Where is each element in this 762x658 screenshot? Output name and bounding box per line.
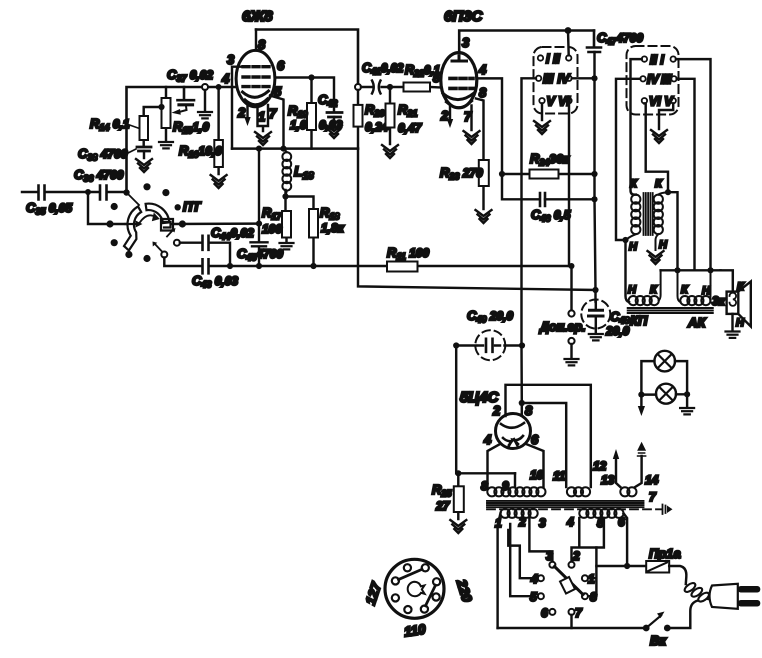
switch contact dots bbox=[143, 183, 150, 190]
svg-text:6: 6 bbox=[541, 606, 548, 620]
switch Вк bbox=[643, 625, 650, 632]
svg-text:4: 4 bbox=[483, 432, 492, 447]
wiper arrow into R15 bbox=[178, 106, 187, 112]
disc link bar 1 bbox=[399, 569, 423, 579]
speaker cone bbox=[738, 282, 751, 327]
svg-text:III: III bbox=[543, 72, 554, 86]
ground R23 bbox=[476, 210, 492, 223]
svg-text:C454700: C454700 bbox=[237, 246, 283, 263]
grid dashes V2 bbox=[450, 78, 473, 88]
wire fuse to cord bbox=[669, 566, 686, 584]
tube V2 6П3С envelope bbox=[441, 53, 477, 108]
wire grid riser bbox=[127, 87, 237, 193]
wire R25 line to tap9 bbox=[514, 473, 516, 486]
svg-text:C36 4700: C36 4700 bbox=[74, 167, 124, 184]
voltage disc bbox=[385, 559, 444, 618]
arrow winding14 up marker bbox=[635, 456, 642, 487]
svg-text:5: 5 bbox=[530, 590, 537, 604]
svg-text:6: 6 bbox=[618, 515, 625, 529]
capacitor C48 plates bbox=[589, 310, 604, 316]
node C45 wiper bbox=[256, 221, 262, 227]
power transformer winding 8-9-10 bbox=[487, 487, 545, 496]
box1 wire V ground bbox=[541, 103, 543, 120]
output transformer primary right winding bbox=[654, 192, 668, 250]
lamp wire left bbox=[641, 361, 656, 395]
selector wiper bar bbox=[555, 567, 584, 595]
svg-text:Н: Н bbox=[659, 239, 668, 251]
svg-text:6: 6 bbox=[531, 432, 539, 447]
box1 contact V bbox=[539, 98, 544, 103]
cord twist bbox=[683, 581, 712, 603]
wire contact2 riser bbox=[572, 518, 597, 596]
svg-text:4: 4 bbox=[566, 515, 574, 529]
lower core lines bbox=[628, 308, 713, 313]
svg-text:3: 3 bbox=[462, 35, 470, 50]
svg-text:1: 1 bbox=[258, 109, 265, 124]
node C44 bus bbox=[227, 263, 233, 269]
svg-text:Пр1а: Пр1а bbox=[649, 546, 681, 561]
wire filament right bbox=[526, 444, 544, 487]
capacitor C49 wire bbox=[456, 344, 522, 346]
node C47/R24 bbox=[591, 171, 597, 177]
bottom line bbox=[498, 627, 647, 629]
V3 filament bbox=[508, 439, 518, 448]
cathode arcs V1 bbox=[243, 91, 269, 97]
node АК left riser bbox=[674, 267, 680, 273]
node C49 left bbox=[453, 342, 459, 348]
lamp wire right bbox=[675, 361, 687, 394]
node pin6 fuse bbox=[624, 563, 630, 569]
jack circle bottom bbox=[568, 338, 574, 344]
box2 wire I right down bbox=[676, 59, 711, 270]
capacitor C36 bbox=[100, 186, 107, 200]
svg-text:3: 3 bbox=[539, 516, 546, 530]
node R19 top bbox=[308, 74, 314, 80]
svg-text:10: 10 bbox=[530, 468, 544, 482]
contact C44 circle bbox=[174, 240, 180, 246]
selector contact 3 bbox=[549, 562, 555, 568]
wire H left down bbox=[626, 240, 630, 302]
box2 contact I bbox=[671, 56, 676, 61]
cathode arcs V2 bbox=[443, 93, 474, 100]
wire to speaker bbox=[721, 270, 733, 291]
svg-text:C46 0,5: C46 0,5 bbox=[531, 207, 571, 224]
svg-text:IV: IV bbox=[647, 73, 660, 87]
wire input line bbox=[22, 191, 127, 193]
node C47/C46 bbox=[591, 196, 597, 202]
pointer R14 bbox=[124, 123, 138, 128]
pin 4 screen wire bbox=[477, 78, 539, 199]
band switch ПТ arc left with tail bbox=[124, 206, 141, 250]
capacitor C37 bbox=[178, 87, 195, 105]
svg-text:R23 270: R23 270 bbox=[440, 165, 483, 182]
svg-text:4: 4 bbox=[478, 62, 487, 77]
svg-text:1,0: 1,0 bbox=[290, 118, 307, 132]
svg-text:5: 5 bbox=[433, 71, 440, 85]
wire plate top line bbox=[256, 30, 358, 85]
svg-text:Н: Н bbox=[736, 317, 745, 329]
box1 wire III left bbox=[522, 78, 536, 345]
power transformer winding 13-14 bbox=[620, 487, 636, 496]
svg-text:ПТ: ПТ bbox=[183, 199, 201, 214]
ground C42 bbox=[326, 125, 342, 138]
resistor R22 bbox=[390, 83, 441, 92]
svg-text:20,0: 20,0 bbox=[605, 324, 630, 338]
selector contact 5 bbox=[538, 593, 544, 599]
resistor R15 bbox=[162, 87, 171, 141]
selector contact 2 bbox=[569, 562, 575, 568]
ground R21 bbox=[382, 145, 398, 158]
selector wiper handle bbox=[560, 577, 575, 594]
capacitor C49 dashed circle bbox=[475, 330, 505, 360]
capacitor C45 bbox=[251, 149, 268, 266]
wire K right to down riser bbox=[668, 192, 678, 270]
dial lamp 2 bbox=[656, 384, 676, 404]
node C49 right bbox=[519, 342, 525, 348]
rotation arrow bbox=[139, 215, 156, 223]
capacitor C35 bbox=[39, 186, 45, 200]
box2 wire III right down bbox=[677, 79, 695, 270]
pin 8 lead bbox=[255, 30, 257, 51]
svg-text:4: 4 bbox=[221, 71, 230, 86]
primary winding 4-5-6 bbox=[579, 509, 623, 518]
box1 contact I bbox=[538, 55, 543, 60]
svg-text:0,47: 0,47 bbox=[398, 121, 423, 135]
node lineB end bbox=[592, 287, 598, 293]
svg-text:6П3С: 6П3С bbox=[444, 8, 483, 25]
svg-text:4: 4 bbox=[530, 572, 538, 586]
resistor R21 bbox=[386, 87, 395, 144]
jack circle top bbox=[568, 310, 574, 316]
wire wiper output bbox=[173, 222, 259, 225]
svg-text:R14 0,1: R14 0,1 bbox=[90, 116, 130, 133]
svg-text:27: 27 bbox=[435, 499, 451, 513]
box2 wire II to primary K left bbox=[631, 59, 642, 195]
box2 contact VI bbox=[642, 98, 647, 103]
capacitor C38 bbox=[137, 147, 151, 158]
arrow winding13 up bbox=[616, 458, 620, 487]
wire contact7 down bbox=[570, 615, 572, 628]
resistor R16 bbox=[214, 87, 223, 174]
wire y270 link bbox=[661, 269, 721, 271]
switch box1 dashed bbox=[534, 47, 578, 114]
svg-text:3к: 3к bbox=[712, 294, 726, 308]
ground R25 bbox=[450, 520, 466, 533]
selector contact 1 bbox=[582, 575, 588, 581]
power transformer core bbox=[487, 501, 644, 507]
node junction grid line bbox=[123, 189, 129, 195]
ground R15 bbox=[159, 142, 173, 148]
power transformer winding 11-12 bbox=[567, 487, 590, 496]
node bus end bbox=[569, 263, 575, 269]
terminal circle on grid line bbox=[202, 84, 208, 90]
ground R16 bbox=[211, 175, 227, 188]
resistor R11 bbox=[387, 262, 418, 272]
wire pin8 riser bbox=[520, 346, 523, 416]
capacitor C44 bbox=[203, 236, 209, 250]
resistor R23 bbox=[479, 160, 489, 209]
svg-text:Н: Н bbox=[702, 285, 711, 297]
svg-text:C440,02: C440,02 bbox=[211, 225, 254, 242]
wire tap to contact4 bbox=[508, 530, 535, 578]
wire C47 riser bbox=[595, 78, 596, 301]
svg-text:C37 0,02: C37 0,02 bbox=[167, 67, 213, 84]
capacitor C48 dashed circle bbox=[581, 300, 610, 329]
selector contact 6 bbox=[549, 609, 555, 615]
svg-text:АК: АК bbox=[687, 315, 706, 330]
switch box2 dashed bbox=[627, 46, 679, 115]
band switch ПТ arc upper bbox=[146, 204, 170, 224]
box1 contact III bbox=[536, 76, 541, 81]
svg-text:C43 0,03: C43 0,03 bbox=[192, 273, 238, 290]
svg-text:VI V: VI V bbox=[649, 95, 674, 109]
box2 wire VI down to K right bbox=[644, 103, 668, 192]
svg-text:II I: II I bbox=[650, 53, 664, 67]
wire pin2 to winding12 bbox=[506, 385, 591, 487]
node R24 left bbox=[499, 171, 505, 177]
node C45 bus bbox=[256, 263, 262, 269]
wire C49 left down to R25 line bbox=[456, 346, 515, 474]
svg-text:3: 3 bbox=[227, 52, 235, 67]
resistor R14 bbox=[140, 107, 162, 146]
svg-text:C38 4700: C38 4700 bbox=[78, 146, 128, 163]
svg-text:1: 1 bbox=[588, 572, 595, 586]
jack ground bbox=[570, 344, 572, 358]
wire pin1 down bbox=[498, 513, 501, 628]
svg-text:7: 7 bbox=[269, 106, 277, 121]
resistor R19 bbox=[307, 78, 316, 149]
node C45 top bbox=[256, 146, 262, 152]
lower winding АК bbox=[678, 270, 711, 305]
box1 contact VI bbox=[566, 98, 571, 103]
svg-text:R1610,0: R1610,0 bbox=[179, 143, 222, 160]
svg-text:I II: I II bbox=[546, 52, 560, 66]
cathode bus line bbox=[232, 147, 358, 149]
wire R20 down to corner bbox=[358, 149, 596, 290]
anode bar V2 bbox=[452, 56, 467, 61]
node R21 top bbox=[387, 84, 393, 90]
rectifier V3 5Ц4С bbox=[496, 414, 531, 449]
wire C44 bbox=[180, 243, 230, 266]
wire winding5 tap down bbox=[596, 518, 604, 548]
svg-text:13: 13 bbox=[601, 473, 615, 487]
band switch wiper square bbox=[161, 219, 173, 231]
box2 contact V bbox=[671, 98, 676, 103]
wire to fuse bbox=[596, 565, 646, 567]
svg-text:3: 3 bbox=[546, 549, 553, 563]
svg-text:Н: Н bbox=[629, 241, 638, 253]
ground lamps bbox=[686, 394, 688, 407]
node R25 bbox=[455, 470, 461, 476]
selector contact 8 bbox=[582, 593, 588, 599]
node H left bbox=[622, 237, 628, 243]
box2 contact IV bbox=[640, 76, 645, 81]
svg-text:2: 2 bbox=[492, 403, 501, 418]
disc holes bbox=[404, 564, 411, 571]
svg-text:R11 100: R11 100 bbox=[387, 245, 429, 262]
arrow lamps supply bbox=[640, 395, 642, 407]
svg-text:9: 9 bbox=[502, 479, 509, 493]
ground cathode V1 bbox=[255, 132, 271, 145]
selector contact 7 bbox=[569, 609, 575, 615]
disc center key bbox=[408, 582, 425, 596]
svg-text:КП: КП bbox=[630, 313, 648, 328]
box1 contact II bbox=[566, 55, 571, 60]
wire pin6 to fuse line bbox=[624, 513, 628, 566]
capacitor C43 bbox=[203, 259, 209, 273]
core screen dashed bbox=[487, 508, 656, 510]
node pin8 bbox=[519, 400, 525, 406]
svg-text:Вк: Вк bbox=[650, 633, 667, 648]
svg-text:V VI: V VI bbox=[547, 95, 571, 109]
node plate line tap bbox=[565, 27, 572, 34]
svg-text:110: 110 bbox=[403, 622, 427, 640]
arrow toward wiper lower bbox=[154, 243, 162, 251]
resistor R18 bbox=[309, 209, 318, 266]
svg-text:14: 14 bbox=[645, 473, 659, 487]
ground C48 bbox=[589, 334, 603, 340]
pin 3 lead bbox=[232, 67, 249, 149]
node АК right riser bbox=[707, 267, 713, 273]
core output transformer bbox=[644, 193, 653, 235]
ground pin7 V2 bbox=[464, 131, 480, 144]
resistor R24 bbox=[502, 170, 595, 179]
pin 6 screen wire bbox=[275, 78, 334, 113]
capacitor C47 bbox=[587, 31, 601, 79]
node R14/R15 bbox=[158, 104, 164, 110]
plug prong bottom bbox=[738, 600, 761, 607]
inductor L18 bbox=[282, 149, 291, 197]
ground terminal bbox=[204, 90, 206, 111]
svg-text:IV: IV bbox=[558, 72, 571, 86]
node L18 top bbox=[280, 146, 286, 152]
svg-text:6: 6 bbox=[277, 58, 285, 73]
svg-text:12: 12 bbox=[593, 459, 607, 473]
svg-text:C35 0,05: C35 0,05 bbox=[26, 200, 72, 217]
node K right top bbox=[665, 189, 671, 195]
ground C38 bbox=[136, 159, 152, 172]
node R18 bottom bbox=[310, 263, 316, 269]
svg-text:8: 8 bbox=[481, 479, 488, 493]
lower winding КП bbox=[629, 270, 661, 305]
svg-text:C410,02: C410,02 bbox=[362, 61, 404, 77]
wire to band switch lower bbox=[88, 192, 131, 224]
svg-text:6Ж8: 6Ж8 bbox=[242, 8, 273, 25]
svg-text:Н: Н bbox=[628, 284, 637, 296]
wire pin8 to winding11 bbox=[522, 403, 566, 487]
capacitor C42 bbox=[327, 113, 342, 125]
capacitor C46 bbox=[540, 193, 595, 206]
box2 contact III bbox=[671, 76, 676, 81]
plug prong top bbox=[738, 586, 761, 593]
svg-text:100: 100 bbox=[262, 222, 282, 236]
wire C43 to bus bbox=[164, 258, 571, 267]
plug body bbox=[710, 584, 738, 609]
pin 8 wire to R23 bbox=[476, 99, 484, 161]
ground speaker bbox=[731, 314, 733, 331]
wire to R18 bbox=[286, 197, 314, 210]
wire grid tap diagonal bbox=[127, 193, 140, 206]
svg-text:8: 8 bbox=[479, 85, 487, 100]
wire filament left bbox=[488, 444, 501, 487]
contact C43 circle bbox=[161, 252, 167, 258]
resistor R17 bbox=[282, 190, 291, 242]
box2 contact II bbox=[642, 56, 647, 61]
box1 wire II up bbox=[567, 31, 570, 56]
box1 wire VI down bbox=[569, 103, 572, 267]
svg-text:Доп.гр.: Доп.гр. bbox=[539, 320, 586, 334]
svg-text:1,8к: 1,8к bbox=[321, 221, 345, 235]
node cathode R17/R18 bbox=[282, 193, 288, 199]
box2 wire V ground bbox=[659, 103, 673, 129]
svg-text:R2436к: R2436к bbox=[530, 151, 570, 168]
box1 wire IV right bbox=[572, 77, 595, 79]
box1 contact IV bbox=[566, 76, 571, 81]
arrow toward wiper upper bbox=[167, 230, 173, 237]
svg-text:2: 2 bbox=[572, 549, 580, 563]
fuse Пр1а bbox=[646, 561, 669, 573]
svg-text:8: 8 bbox=[525, 403, 533, 418]
dial lamp 1 bbox=[654, 351, 675, 372]
wire tap2 to contact3 bbox=[529, 518, 552, 562]
disc link bar 2 bbox=[426, 585, 436, 606]
wire tap to contact5 bbox=[510, 524, 535, 596]
svg-text:8: 8 bbox=[258, 37, 266, 52]
pin 5 cathode wire bbox=[270, 96, 284, 149]
screen tap symbol bbox=[656, 505, 666, 515]
svg-text:III: III bbox=[661, 73, 672, 87]
svg-text:8: 8 bbox=[590, 590, 597, 604]
output transformer primary left winding bbox=[626, 195, 641, 240]
ground primary right bbox=[648, 251, 664, 264]
svg-text:C49 20,0: C49 20,0 bbox=[467, 308, 513, 325]
jack Доп.гр. wire bbox=[570, 266, 572, 311]
tube V1 6Ж8 envelope bbox=[236, 50, 275, 106]
selector contact 4 bbox=[538, 575, 544, 581]
resistor R20 bbox=[354, 90, 363, 149]
node C47 line IV bbox=[591, 75, 597, 81]
capacitor C41 bbox=[361, 86, 389, 88]
speaker voice coil box bbox=[727, 292, 739, 314]
capacitor C49 plates bbox=[486, 339, 493, 352]
node C41 circle bbox=[355, 84, 361, 90]
grid dashes V1 bbox=[243, 67, 269, 87]
pointer C38 bbox=[128, 149, 136, 153]
pin 3 plate lead bbox=[459, 31, 594, 54]
svg-text:11: 11 bbox=[553, 469, 566, 483]
node R16 bbox=[216, 84, 222, 90]
svg-text:C474700: C474700 bbox=[597, 30, 643, 47]
node lamps right bbox=[684, 391, 690, 397]
V3 anode arcs bbox=[501, 423, 524, 428]
node junction C35/C36 bbox=[85, 189, 91, 195]
ground R17 bbox=[280, 243, 294, 249]
svg-text:2: 2 bbox=[518, 515, 526, 529]
primary winding 1-2-3 bbox=[501, 509, 538, 518]
wire into switch with arrow bbox=[125, 223, 137, 225]
box2 wire IV left down bbox=[616, 79, 640, 240]
node lamps left bbox=[638, 392, 644, 398]
resistor R25 bbox=[454, 473, 464, 519]
